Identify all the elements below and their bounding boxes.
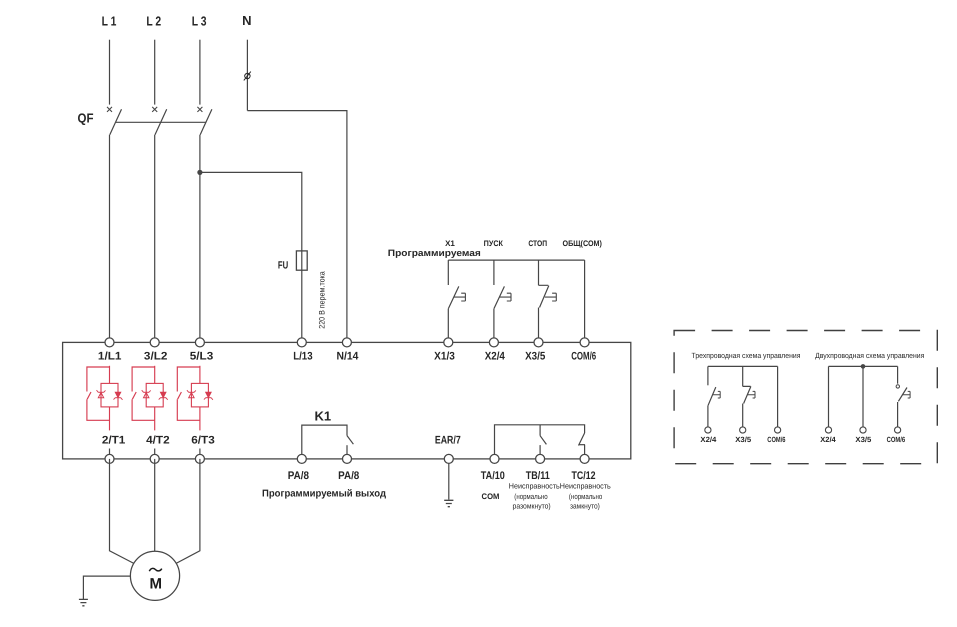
- svg-text:X3/5: X3/5: [735, 435, 751, 444]
- svg-text:3/L2: 3/L2: [144, 350, 168, 362]
- svg-text:разомкнуто): разомкнуто): [513, 502, 552, 511]
- svg-text:TA/10: TA/10: [481, 470, 505, 482]
- svg-text:X3/5: X3/5: [855, 435, 871, 444]
- svg-text:X1/3: X1/3: [434, 350, 455, 362]
- svg-text:EAR/7: EAR/7: [435, 434, 461, 446]
- svg-text:COM/6: COM/6: [571, 350, 596, 362]
- svg-text:Двухпроводная схема управления: Двухпроводная схема управления: [815, 351, 924, 360]
- svg-text:СТОП: СТОП: [528, 239, 547, 248]
- svg-text:Программируемый выход: Программируемый выход: [262, 488, 387, 499]
- svg-text:N: N: [242, 13, 251, 28]
- svg-text:N/14: N/14: [337, 350, 360, 362]
- svg-text:PA/8: PA/8: [338, 470, 359, 482]
- svg-text:L 1: L 1: [102, 14, 117, 29]
- svg-text:(нормально: (нормально: [569, 492, 602, 501]
- svg-text:TB/11: TB/11: [526, 470, 550, 482]
- svg-text:2/T1: 2/T1: [102, 434, 126, 446]
- svg-text:1/L1: 1/L1: [98, 350, 122, 362]
- svg-text:X2/4: X2/4: [700, 435, 717, 444]
- svg-text:X2/4: X2/4: [485, 350, 506, 362]
- svg-text:220 В перем.тока: 220 В перем.тока: [318, 271, 327, 329]
- svg-text:TC/12: TC/12: [572, 470, 596, 482]
- svg-text:L 2: L 2: [146, 14, 161, 29]
- svg-text:6/T3: 6/T3: [191, 434, 215, 446]
- svg-text:ОБЩ(СОМ): ОБЩ(СОМ): [563, 239, 603, 248]
- svg-text:Неисправность: Неисправность: [560, 482, 611, 491]
- svg-text:PA/8: PA/8: [288, 470, 309, 482]
- svg-text:замкнуто): замкнуто): [570, 502, 600, 511]
- svg-text:X1: X1: [445, 239, 455, 248]
- svg-text:L 3: L 3: [192, 14, 207, 29]
- svg-text:5/L3: 5/L3: [190, 350, 214, 362]
- svg-text:QF: QF: [78, 110, 94, 125]
- svg-text:4/T2: 4/T2: [146, 434, 170, 446]
- svg-text:L/13: L/13: [293, 350, 312, 362]
- svg-text:Трехпроводная схема управления: Трехпроводная схема управления: [692, 351, 801, 360]
- svg-text:COM: COM: [482, 492, 500, 501]
- svg-text:(нормально: (нормально: [514, 492, 547, 501]
- svg-text:M: M: [150, 576, 163, 593]
- svg-text:FU: FU: [278, 260, 288, 272]
- svg-text:COM/6: COM/6: [767, 435, 785, 444]
- svg-text:X2/4: X2/4: [820, 435, 836, 444]
- svg-text:COM/6: COM/6: [887, 435, 906, 444]
- svg-text:Неисправность: Неисправность: [509, 482, 560, 491]
- svg-text:ПУСК: ПУСК: [484, 239, 503, 248]
- svg-text:K1: K1: [314, 408, 331, 423]
- svg-text:Программируемая: Программируемая: [388, 248, 481, 258]
- svg-text:X3/5: X3/5: [525, 350, 545, 362]
